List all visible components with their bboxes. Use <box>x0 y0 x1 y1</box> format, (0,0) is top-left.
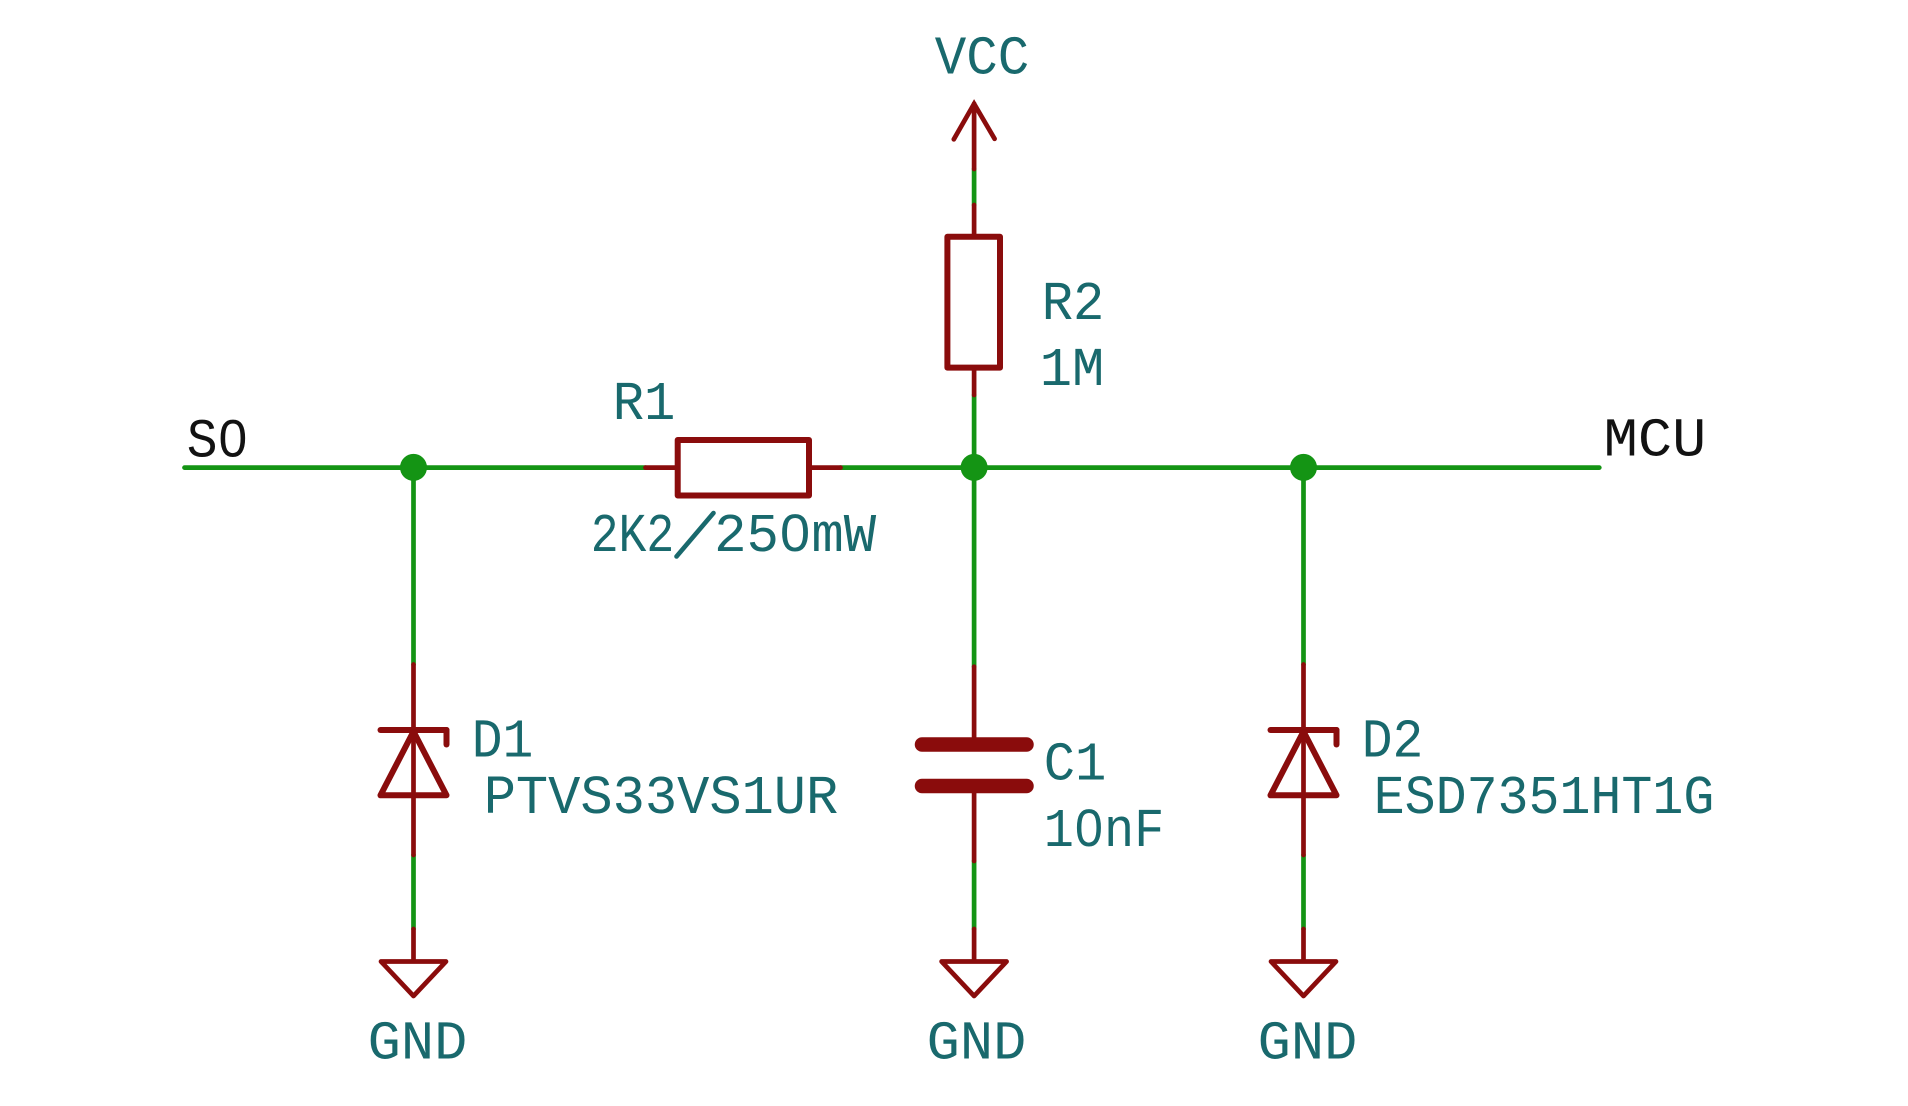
ground symbol 2 <box>942 929 1007 996</box>
junction node C <box>1290 454 1317 481</box>
capacitor C1 plates <box>922 737 1027 752</box>
zero dot masks <box>228 434 240 446</box>
svg-text:C1: C1 <box>1044 736 1107 797</box>
svg-text:10nF: 10nF <box>1044 802 1165 863</box>
wire C1 to GND <box>972 861 977 929</box>
wire S0 to R1 <box>185 465 646 470</box>
diode D2 <box>1271 665 1337 856</box>
svg-text:PTVS33VS1UR: PTVS33VS1UR <box>484 769 839 830</box>
diode D1 <box>381 665 447 856</box>
wire node to D1 <box>411 468 416 665</box>
junction node B <box>961 454 988 481</box>
svg-text:1M: 1M <box>1040 341 1105 402</box>
wire D2 to GND <box>1301 855 1306 929</box>
wire VCC to R2 <box>972 169 977 205</box>
resistor R2 pins <box>972 205 977 234</box>
svg-text:ESD7351HT1G: ESD7351HT1G <box>1374 769 1715 830</box>
svg-text:D1: D1 <box>472 713 534 774</box>
svg-text:VCC: VCC <box>935 30 1030 91</box>
resistor R1 body <box>678 440 809 496</box>
svg-text:MCU: MCU <box>1604 412 1707 473</box>
svg-text:2K2: 2K2 <box>591 507 675 568</box>
svg-text:S0: S0 <box>187 413 249 474</box>
svg-text:D2: D2 <box>1362 713 1424 774</box>
resistor R1 pins <box>646 465 675 470</box>
svg-text:R2: R2 <box>1042 275 1105 336</box>
ground symbol 1 <box>381 929 446 996</box>
wire R1 to MCU <box>841 465 1600 470</box>
wire node to D2 <box>1301 468 1306 665</box>
svg-text:GND: GND <box>927 1015 1027 1076</box>
svg-text:GND: GND <box>368 1015 468 1076</box>
svg-text:R1: R1 <box>613 375 676 436</box>
resistor R2 body <box>947 237 1000 368</box>
junction node A <box>400 454 427 481</box>
wire node to C1 <box>972 468 977 667</box>
ground symbol 3 <box>1271 929 1336 996</box>
power VCC symbol <box>954 104 995 169</box>
wire R2 to node <box>972 395 977 468</box>
wire D1 to GND <box>411 855 416 929</box>
capacitor C1 pins <box>972 667 977 738</box>
svg-text:GND: GND <box>1258 1015 1358 1076</box>
